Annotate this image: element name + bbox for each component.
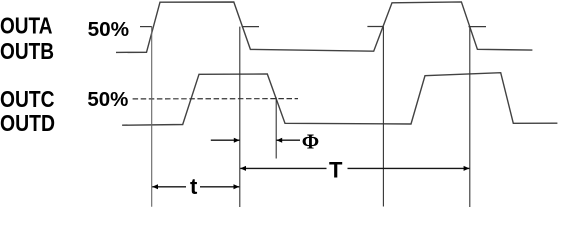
dimension t shaft left <box>152 186 186 188</box>
cursor C2 falling edge 1 <box>239 27 241 207</box>
svg-text:50%: 50% <box>88 19 130 41</box>
waveform OUTA/OUTB <box>116 2 532 53</box>
svg-text:Φ: Φ <box>302 129 319 153</box>
50% tick rising edge 1 <box>140 26 152 28</box>
svg-text:OUTD: OUTD <box>0 110 55 136</box>
dimension T shaft right <box>348 167 470 169</box>
svg-text:T: T <box>329 158 343 183</box>
50% tick falling edge 1 <box>242 26 259 28</box>
50% tick falling edge 2 <box>469 26 487 28</box>
dimension t arrowhead right <box>234 184 240 189</box>
cursor C4 falling edge 2 <box>469 27 471 207</box>
dimension phi right arrow shaft <box>276 139 300 141</box>
cursor C1 rising edge 1 <box>151 27 153 207</box>
dimension phi left arrow shaft <box>211 139 240 141</box>
phi tick on OUTC falling edge <box>275 98 277 159</box>
dimension T shaft left <box>240 167 326 169</box>
dimension T arrowhead right <box>464 166 470 171</box>
svg-text:OUTC: OUTC <box>0 86 55 112</box>
svg-text:OUTB: OUTB <box>0 38 54 64</box>
dashed 50% reference line OUTC <box>133 98 298 100</box>
svg-text:OUTA: OUTA <box>0 13 53 39</box>
svg-text:t: t <box>190 174 198 199</box>
dimension phi left arrowhead <box>234 138 240 143</box>
dimension phi right arrowhead <box>276 138 282 143</box>
dimension T arrowhead left <box>240 166 246 171</box>
dimension t shaft right <box>200 186 239 188</box>
svg-text:50%: 50% <box>87 89 128 111</box>
waveform OUTC/OUTD <box>122 73 557 126</box>
cursor C3 rising edge 2 <box>382 27 384 207</box>
50% tick rising edge 2 <box>367 26 383 28</box>
dimension t arrowhead left <box>152 184 158 189</box>
